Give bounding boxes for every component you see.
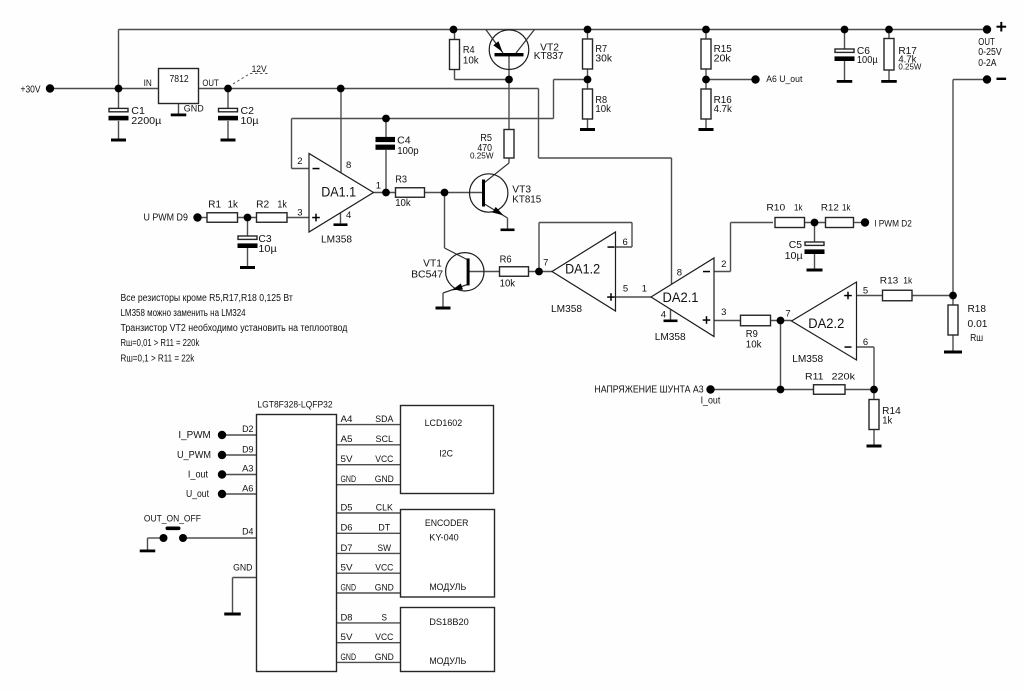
svg-text:IN: IN: [144, 78, 152, 89]
svg-text:10µ: 10µ: [258, 244, 277, 255]
svg-text:DT: DT: [378, 523, 390, 534]
svg-text:GND: GND: [375, 582, 394, 593]
svg-text:4: 4: [346, 210, 351, 221]
svg-text:2200µ: 2200µ: [131, 116, 161, 127]
svg-text:10k: 10k: [746, 339, 763, 350]
svg-text:GND: GND: [184, 103, 204, 114]
svg-text:DA2.1: DA2.1: [663, 290, 699, 305]
svg-text:SDA: SDA: [375, 414, 394, 425]
svg-text:GND: GND: [341, 652, 357, 663]
svg-text:DA1.1: DA1.1: [321, 185, 356, 200]
svg-text:1: 1: [376, 181, 381, 192]
svg-text:0.25W: 0.25W: [898, 63, 921, 72]
svg-text:НАПРЯЖЕНИЕ ШУНТА А3: НАПРЯЖЕНИЕ ШУНТА А3: [594, 385, 704, 396]
svg-text:10k: 10k: [463, 55, 480, 66]
svg-text:1: 1: [642, 284, 647, 295]
svg-text:10k: 10k: [595, 104, 611, 115]
svg-text:OUT_ON_OFF: OUT_ON_OFF: [144, 514, 201, 525]
svg-text:R10: R10: [766, 203, 785, 214]
svg-text:Все резисторы кроме R5,R17,R18: Все резисторы кроме R5,R17,R18 0,125 Вт: [121, 293, 294, 304]
svg-text:6: 6: [623, 237, 628, 248]
svg-text:220k: 220k: [832, 372, 856, 383]
svg-text:4.7k: 4.7k: [714, 104, 733, 115]
svg-text:R2: R2: [256, 200, 269, 211]
svg-text:7: 7: [785, 308, 790, 319]
svg-text:I2C: I2C: [439, 449, 453, 460]
svg-text:7: 7: [543, 257, 548, 268]
svg-text:LM358 можно заменить на LM324: LM358 можно заменить на LM324: [121, 308, 246, 319]
svg-text:BC547: BC547: [411, 269, 443, 280]
svg-text:8: 8: [346, 160, 351, 171]
svg-text:Rш=0,01 > R11 = 220k: Rш=0,01 > R11 = 220k: [121, 338, 201, 349]
svg-text:LCD1602: LCD1602: [425, 418, 463, 429]
svg-text:D2: D2: [242, 424, 253, 435]
svg-text:8: 8: [677, 268, 682, 279]
svg-text:1k: 1k: [903, 276, 912, 287]
svg-text:1k: 1k: [277, 200, 287, 211]
svg-text:1k: 1k: [882, 416, 893, 427]
svg-text:6: 6: [863, 337, 868, 348]
svg-text:R18: R18: [968, 304, 987, 315]
svg-text:10k: 10k: [500, 279, 516, 290]
svg-text:R13: R13: [880, 276, 899, 287]
svg-text:GND: GND: [341, 582, 357, 593]
svg-text:GND: GND: [375, 474, 394, 485]
svg-text:4: 4: [661, 310, 666, 321]
svg-text:SW: SW: [378, 543, 392, 554]
svg-text:1k: 1k: [794, 203, 803, 214]
svg-text:МОДУЛЬ: МОДУЛЬ: [429, 656, 466, 667]
svg-text:VCC: VCC: [375, 563, 393, 574]
svg-text:R9: R9: [746, 329, 758, 340]
svg-text:Rш: Rш: [970, 333, 983, 344]
svg-text:30k: 30k: [595, 54, 613, 65]
svg-text:1k: 1k: [842, 203, 851, 214]
svg-text:A6 U_out: A6 U_out: [766, 74, 803, 85]
svg-text:LM358: LM358: [551, 304, 582, 315]
svg-text:10µ: 10µ: [785, 251, 803, 262]
svg-text:ENCODER: ENCODER: [425, 518, 469, 529]
svg-text:0-2A: 0-2A: [978, 58, 996, 69]
svg-text:GND: GND: [233, 563, 252, 574]
svg-text:KT815: KT815: [512, 195, 541, 206]
svg-text:KY-040: KY-040: [429, 533, 458, 544]
svg-text:R12: R12: [821, 203, 839, 214]
svg-text:5: 5: [863, 285, 868, 296]
svg-text:100p: 100p: [397, 146, 419, 157]
svg-text:DS18B20: DS18B20: [429, 617, 469, 628]
svg-text:100µ: 100µ: [857, 55, 878, 66]
svg-text:I_out: I_out: [188, 469, 208, 480]
svg-text:DA1.2: DA1.2: [565, 261, 600, 276]
svg-text:D9: D9: [242, 444, 253, 455]
svg-text:A5: A5: [341, 434, 353, 445]
svg-text:CLK: CLK: [376, 502, 394, 513]
svg-text:VT1: VT1: [423, 259, 442, 270]
svg-text:R11: R11: [805, 372, 824, 383]
svg-text:U_out: U_out: [186, 489, 209, 500]
svg-text:A4: A4: [341, 414, 353, 425]
svg-text:3: 3: [297, 207, 302, 218]
svg-text:U PWM D9: U PWM D9: [144, 212, 188, 223]
svg-text:LGT8F328-LQFP32: LGT8F328-LQFP32: [257, 399, 332, 410]
svg-text:OUT: OUT: [202, 78, 219, 89]
svg-text:D5: D5: [341, 502, 353, 513]
svg-text:10µ: 10µ: [241, 116, 259, 127]
svg-text:LM358: LM358: [655, 332, 686, 343]
svg-text:7812: 7812: [170, 74, 190, 85]
svg-text:A6: A6: [242, 484, 253, 495]
svg-text:GND: GND: [341, 474, 357, 485]
svg-text:Транзистор VT2 необходимо уста: Транзистор VT2 необходимо установить на …: [121, 322, 348, 334]
svg-text:C4: C4: [397, 136, 411, 147]
svg-text:5V: 5V: [341, 454, 354, 465]
svg-text:LM358: LM358: [321, 234, 352, 245]
svg-text:10k: 10k: [395, 198, 411, 209]
svg-text:5V: 5V: [341, 563, 354, 574]
svg-text:3: 3: [721, 307, 726, 318]
svg-text:0-25V: 0-25V: [978, 47, 1002, 58]
svg-text:R1: R1: [208, 200, 221, 211]
svg-text:A3: A3: [242, 464, 253, 475]
svg-text:U_PWM: U_PWM: [177, 450, 211, 461]
svg-text:12V: 12V: [252, 64, 268, 75]
svg-text:I_out: I_out: [701, 395, 721, 406]
svg-text:SCL: SCL: [376, 434, 394, 445]
svg-text:D6: D6: [341, 523, 353, 534]
svg-text:+30V: +30V: [21, 84, 41, 95]
svg-text:LM358: LM358: [792, 354, 823, 365]
svg-text:C5: C5: [789, 240, 803, 251]
svg-text:D4: D4: [242, 527, 253, 538]
svg-text:МОДУЛЬ: МОДУЛЬ: [429, 582, 466, 593]
svg-text:1k: 1k: [228, 200, 239, 211]
svg-text:I_PWM: I_PWM: [178, 430, 210, 441]
svg-text:GND: GND: [375, 652, 394, 663]
svg-text:2: 2: [721, 259, 726, 270]
svg-text:5: 5: [623, 284, 628, 295]
svg-text:VCC: VCC: [375, 632, 393, 643]
svg-text:KT837: KT837: [534, 51, 564, 62]
svg-text:D8: D8: [341, 612, 353, 623]
svg-text:0.25W: 0.25W: [470, 151, 494, 160]
svg-text:DA2.2: DA2.2: [808, 316, 844, 331]
svg-text:20k: 20k: [714, 54, 732, 65]
svg-text:5V: 5V: [341, 632, 354, 643]
svg-text:R6: R6: [500, 254, 512, 265]
svg-text:2: 2: [297, 156, 302, 167]
svg-text:VCC: VCC: [375, 454, 393, 465]
svg-text:R3: R3: [395, 175, 407, 186]
svg-text:D7: D7: [341, 543, 353, 554]
svg-text:0.01: 0.01: [968, 319, 988, 330]
svg-text:S: S: [382, 612, 388, 623]
svg-text:Rш=0,1 > R11 = 22k: Rш=0,1 > R11 = 22k: [121, 353, 196, 364]
svg-text:I PWM D2: I PWM D2: [874, 218, 912, 229]
